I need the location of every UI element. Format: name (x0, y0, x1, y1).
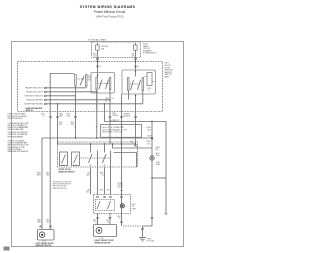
svg-text:BLK/WHT 57: BLK/WHT 57 (110, 120, 120, 122)
wire from ground bus down to S623 (151, 122, 153, 139)
wire labels right motor (93, 220, 109, 224)
connector pin on YEL wire inside box (134, 66, 136, 67)
connector C2 on YEL wire (134, 59, 137, 60)
node dot on dashed top at ORG wire (97, 61, 99, 63)
dashed continuation to window lock (123, 225, 141, 227)
fuse panel label (143, 44, 156, 55)
branch wire to ground ring (113, 144, 153, 148)
right assembly switch contacts (128, 72, 144, 104)
switch levers (89, 144, 111, 167)
ring connector (150, 156, 154, 160)
right front door label (118, 183, 124, 189)
svg-text:YEL: YEL (107, 190, 110, 192)
svg-text:SWITCH: SWITCH (26, 110, 34, 112)
legend box (101, 125, 142, 138)
wire right door feed (121, 112, 123, 191)
svg-text:S623: S623 (148, 135, 152, 137)
node dot at bus junction (151, 121, 152, 122)
svg-text:Power Window Circuit: Power Window Circuit (94, 10, 125, 14)
node dot right assembly bottom (135, 95, 136, 96)
tick x121 lower (120, 222, 123, 223)
svg-text:WINDOW MOTOR: WINDOW MOTOR (95, 242, 111, 244)
svg-text:MASTER SWITCH: MASTER SWITCH (53, 187, 68, 190)
svg-text:LB: LB (105, 100, 107, 102)
safety switch S1 contact bars (75, 75, 87, 96)
wire to safety switch (50, 74, 74, 225)
connector C1 on ORG wire (96, 59, 99, 60)
svg-text:LABEL BEFORE SERVICE: LABEL BEFORE SERVICE (8, 150, 29, 153)
svg-text:RESETTING BRKR: RESETTING BRKR (8, 118, 24, 120)
svg-text:57: 57 (119, 218, 121, 220)
svg-text:55: 55 (107, 222, 109, 224)
internal switch cell (96, 200, 115, 211)
svg-text:WHT/ORG RT WDO UP: WHT/ORG RT WDO UP (25, 96, 44, 98)
wire ORG from CB1 (97, 51, 99, 76)
pin row labels (24, 88, 44, 106)
splice dot S623 end of A (151, 137, 153, 139)
ticks above left motor (39, 226, 51, 227)
node dot branch (112, 143, 113, 144)
ground joint (143, 226, 153, 237)
motor box top ticks (96, 197, 122, 198)
page corner mark (4, 247, 10, 251)
svg-text:53: 53 (132, 143, 134, 145)
switch cell 1 (60, 152, 68, 166)
splice wire A across (42, 138, 152, 225)
wire right assembly drop (135, 112, 137, 145)
svg-text:RED/LB ILLUM FEED: RED/LB ILLUM FEED (26, 100, 43, 102)
ground feed wire B to right cowl (105, 112, 167, 213)
svg-text:1994 Ford Pickup F150: 1994 Ford Pickup F150 (96, 14, 124, 18)
node dot on dashed top at YEL wire (135, 61, 137, 63)
note paragraph 4 (8, 140, 30, 154)
svg-text:14: 14 (137, 66, 139, 68)
fuse panel dashed box (92, 42, 141, 58)
node dot row3 (96, 91, 97, 92)
switch link (80, 157, 111, 159)
node dot feed right assembly (135, 71, 136, 72)
master switch dashed box (18, 62, 163, 112)
node dot row4 (109, 99, 110, 100)
feed bus inside switch (58, 143, 136, 145)
svg-text:G904: G904 (156, 164, 160, 166)
svg-text:DOOR: DOOR (118, 187, 124, 189)
svg-text:DASH PANEL CONN C501: DASH PANEL CONN C501 (102, 131, 123, 134)
bulb label (132, 204, 137, 210)
node dots on feed bus (90, 143, 91, 144)
svg-text:SWITCH RHEOSTAT: SWITCH RHEOSTAT (8, 128, 24, 131)
svg-text:ASSY: ASSY (165, 76, 171, 79)
wires dropping from switches to box bottom (97, 92, 136, 112)
svg-text:WINDOW MOTOR: WINDOW MOTOR (36, 245, 52, 247)
svg-text:YEL/BLK WDO DN FD: YEL/BLK WDO DN FD (26, 92, 44, 94)
svg-text:54: 54 (112, 98, 114, 100)
wire ORG/BLK splice drop (75, 112, 77, 139)
pin number labels (105, 98, 113, 102)
svg-text:14: 14 (99, 66, 101, 68)
node dot right feed (121, 190, 123, 192)
pin row wires (47, 88, 143, 112)
interior jog wire (114, 153, 137, 168)
note paragraph 3 (8, 132, 29, 138)
legend text (102, 126, 128, 134)
circuit breaker CB1 (96, 43, 100, 50)
wire YEL from CB2 (135, 51, 137, 72)
wire down from splice S623 (151, 138, 153, 226)
right door window motor dashed box (94, 195, 131, 214)
node dot feed left switch (97, 75, 98, 76)
switch cell 2 (72, 152, 80, 166)
right window motor M2 (94, 225, 117, 237)
drops from right door switch (91, 167, 111, 195)
connector pin rows of master switch (44, 87, 47, 104)
master switch label (165, 63, 173, 79)
ticks on ground wires (151, 213, 168, 219)
page frame (12, 42, 184, 247)
svg-text:WHT: WHT (156, 155, 160, 157)
svg-text:LB/BLK: LB/BLK (112, 115, 119, 117)
svg-text:WHT: WHT (37, 175, 41, 177)
wire drop x96 (96, 112, 98, 139)
wire label left motor up (37, 220, 50, 224)
safety switch label (88, 75, 93, 81)
wire drop x109 (109, 112, 111, 145)
svg-text:SYSTEM WIRING DIAGRAMS: SYSTEM WIRING DIAGRAMS (80, 5, 136, 9)
svg-text:HOT AT ALL TIMES: HOT AT ALL TIMES (89, 39, 107, 42)
illumination bulb (120, 204, 124, 208)
right assembly coil (145, 73, 155, 86)
connector ticks below master box (49, 117, 137, 118)
right door switch dashed box (58, 142, 138, 167)
left window switch body (91, 73, 115, 94)
stub wires into left motor (42, 225, 50, 230)
svg-text:54: 54 (95, 222, 97, 224)
note paragraph 5 (53, 182, 73, 190)
right switch and relay assembly body (122, 70, 156, 94)
svg-text:WINDOW SWITCH: WINDOW SWITCH (59, 171, 76, 173)
node dot row5 (104, 103, 105, 104)
node dot row5 x57 (57, 103, 58, 104)
left window switch contacts (96, 76, 111, 112)
svg-text:RT COWL: RT COWL (147, 241, 155, 243)
wire labels below master box (41, 113, 131, 118)
note paragraph 1 (8, 113, 27, 120)
svg-text:BLK/WHT SW GROUND: BLK/WHT SW GROUND (24, 104, 43, 106)
left window motor M1 (38, 230, 55, 241)
circuit breaker CB2 (134, 43, 138, 50)
connector pin on ORG wire inside box (96, 66, 98, 67)
switch bottom ticks (63, 164, 106, 166)
wire into right motor box (121, 191, 123, 197)
splice dot on A at x96 (96, 137, 97, 138)
wire labels above right switch box (86, 190, 109, 194)
wire color label right (156, 147, 161, 166)
note paragraph 2 (8, 123, 30, 131)
wire x121 lower drop (121, 214, 123, 227)
svg-text:RED/WHT WDO UP FD: RED/WHT WDO UP FD (25, 88, 44, 90)
connector tick on x135 below bus (134, 145, 137, 146)
svg-text:SWITCH ASSEMBLY: SWITCH ASSEMBLY (8, 135, 25, 138)
ground symbol G904 (139, 237, 146, 241)
splice dot on A at x75 (75, 137, 76, 138)
svg-text:WHT: WHT (37, 222, 41, 224)
svg-text:57: 57 (43, 116, 45, 118)
svg-text:510: 510 (94, 56, 97, 58)
svg-text:WHT: WHT (59, 116, 63, 118)
wire to right door switch (57, 104, 59, 144)
svg-text:YEL: YEL (130, 141, 133, 143)
ticks above right motor (96, 218, 111, 219)
svg-text:400: 400 (132, 56, 135, 58)
wires to right motor (98, 214, 111, 225)
wire label left motor mid (37, 172, 105, 176)
branch wire to x165 (152, 177, 166, 179)
svg-text:(POWER WDO): (POWER WDO) (143, 53, 156, 55)
node dot branch177 (151, 177, 152, 178)
tick on ground drop (141, 229, 144, 230)
svg-text:54: 54 (102, 175, 104, 177)
